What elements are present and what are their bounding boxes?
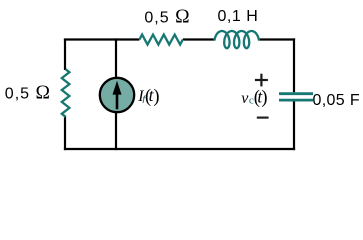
wire right vertical upper bbox=[293, 38, 295, 92]
wire top left segment bbox=[65, 39, 139, 40]
wire current source branch upper bbox=[115, 38, 117, 78]
label plus bbox=[255, 74, 268, 87]
wire bottom bbox=[64, 148, 295, 150]
svg-text:0,05 F: 0,05 F bbox=[313, 92, 360, 109]
svg-text:0,1 H: 0,1 H bbox=[218, 8, 259, 25]
inductor L1 0,1 H bbox=[215, 31, 259, 48]
capacitor C1 top plate bbox=[279, 92, 313, 95]
label minus bbox=[257, 116, 269, 118]
resistor R1 0,5 ohm vertical bbox=[62, 69, 70, 117]
wire left vertical upper bbox=[64, 38, 66, 70]
svg-text:): ) bbox=[261, 88, 267, 108]
svg-text:0,5 Ω: 0,5 Ω bbox=[144, 7, 189, 28]
capacitor C1 bottom plate bbox=[279, 99, 313, 102]
wire left vertical lower bbox=[64, 116, 66, 150]
label vc(t) bbox=[241, 86, 267, 108]
current source If circle bbox=[100, 78, 134, 112]
svg-text:): ) bbox=[153, 87, 159, 107]
label If(t) bbox=[137, 85, 159, 107]
wire current source branch lower bbox=[115, 112, 117, 150]
current source arrow bbox=[113, 81, 122, 95]
wire top from R2 to L1 bbox=[183, 38, 215, 40]
wire right vertical lower bbox=[293, 102, 295, 151]
resistor R2 0,5 ohm horizontal bbox=[139, 35, 182, 45]
wire top from L1 to right corner bbox=[259, 38, 295, 41]
svg-text:0,5 Ω: 0,5 Ω bbox=[5, 82, 50, 103]
